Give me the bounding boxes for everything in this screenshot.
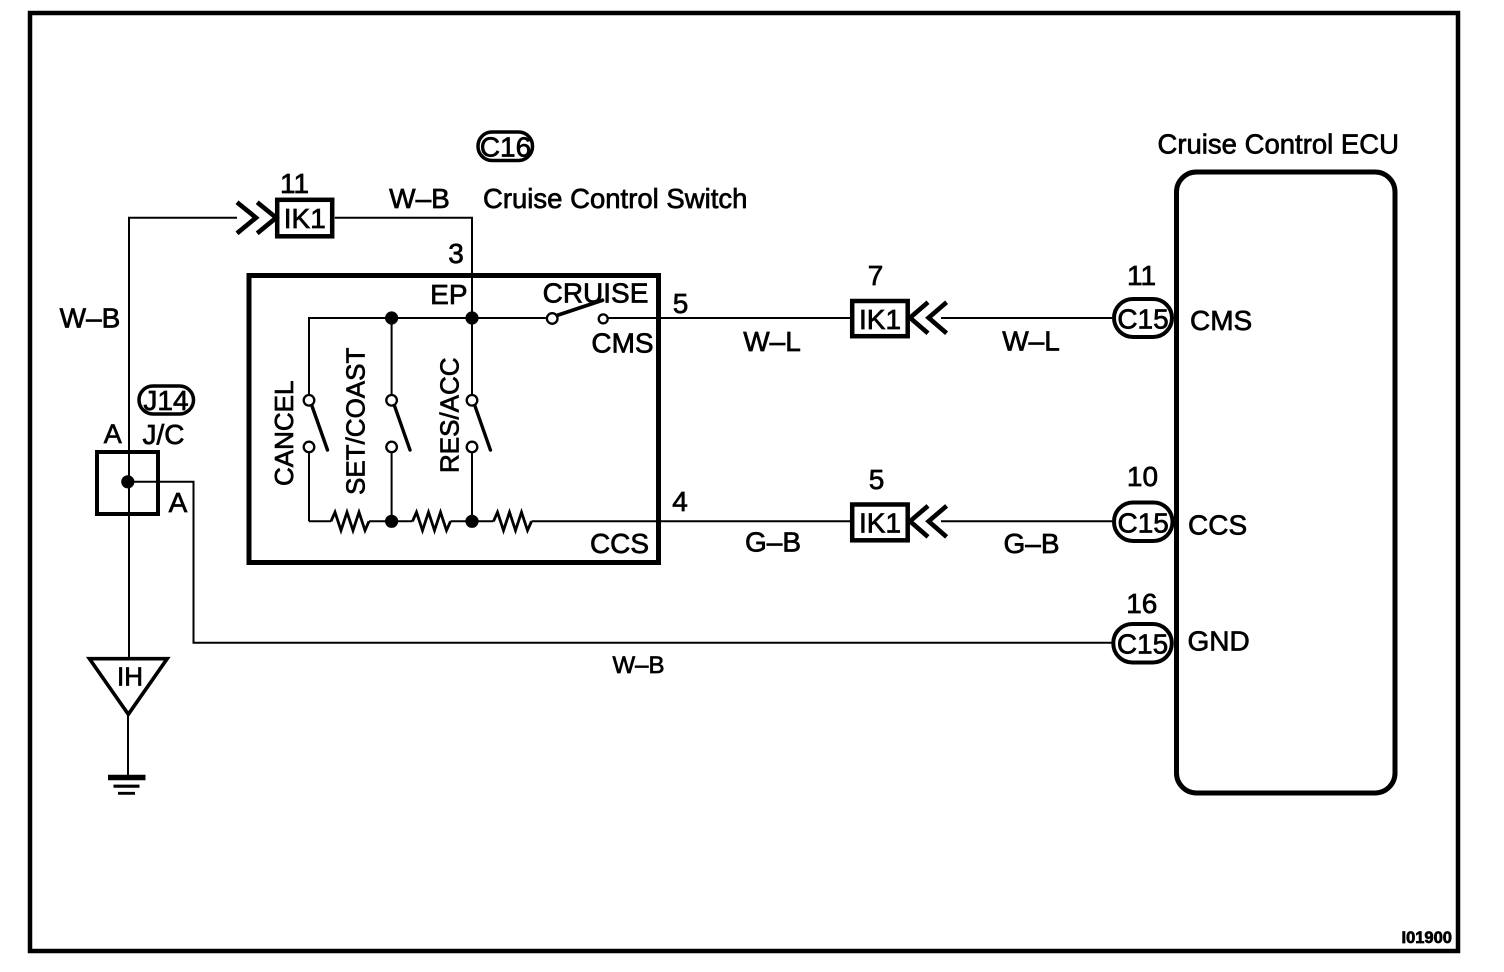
svg-text:CANCEL: CANCEL [269,381,299,486]
svg-text:G–B: G–B [1003,528,1059,559]
svg-text:4: 4 [672,486,688,517]
svg-text:C15: C15 [1117,304,1168,335]
svg-text:CCS: CCS [1188,510,1247,541]
svg-text:10: 10 [1127,461,1158,492]
svg-text:Cruise Control ECU: Cruise Control ECU [1158,129,1399,160]
svg-text:C15: C15 [1117,629,1168,660]
svg-text:W–L: W–L [1002,326,1060,357]
svg-text:I01900: I01900 [1402,929,1452,947]
svg-text:RES/ACC: RES/ACC [435,357,465,473]
svg-text:Cruise Control Switch: Cruise Control Switch [483,183,747,214]
svg-text:IH: IH [117,662,143,692]
svg-text:A: A [169,487,188,518]
svg-text:IK1: IK1 [859,508,901,539]
svg-text:11: 11 [280,168,309,199]
svg-text:3: 3 [448,238,464,269]
svg-text:C15: C15 [1118,507,1169,538]
svg-text:W–B: W–B [60,303,121,334]
svg-text:IK1: IK1 [859,304,901,335]
svg-text:G–B: G–B [745,527,801,558]
svg-text:A: A [104,419,122,449]
svg-text:EP: EP [430,279,467,310]
svg-text:J/C: J/C [143,419,185,450]
svg-text:CRUISE: CRUISE [543,278,649,309]
svg-text:GND: GND [1188,626,1250,657]
svg-text:11: 11 [1127,260,1156,291]
svg-text:SET/COAST: SET/COAST [341,348,371,495]
svg-text:5: 5 [869,464,885,495]
svg-text:5: 5 [673,288,689,319]
svg-text:C16: C16 [480,132,531,163]
svg-text:CMS: CMS [1190,305,1252,336]
svg-text:7: 7 [868,260,884,291]
svg-text:W–B: W–B [612,652,664,679]
svg-text:J14: J14 [143,385,188,416]
svg-text:CMS: CMS [591,328,653,359]
svg-text:CCS: CCS [590,528,649,559]
svg-text:W–B: W–B [389,183,450,214]
svg-text:W–L: W–L [743,326,801,357]
svg-text:16: 16 [1126,588,1157,619]
svg-text:IK1: IK1 [284,203,326,234]
